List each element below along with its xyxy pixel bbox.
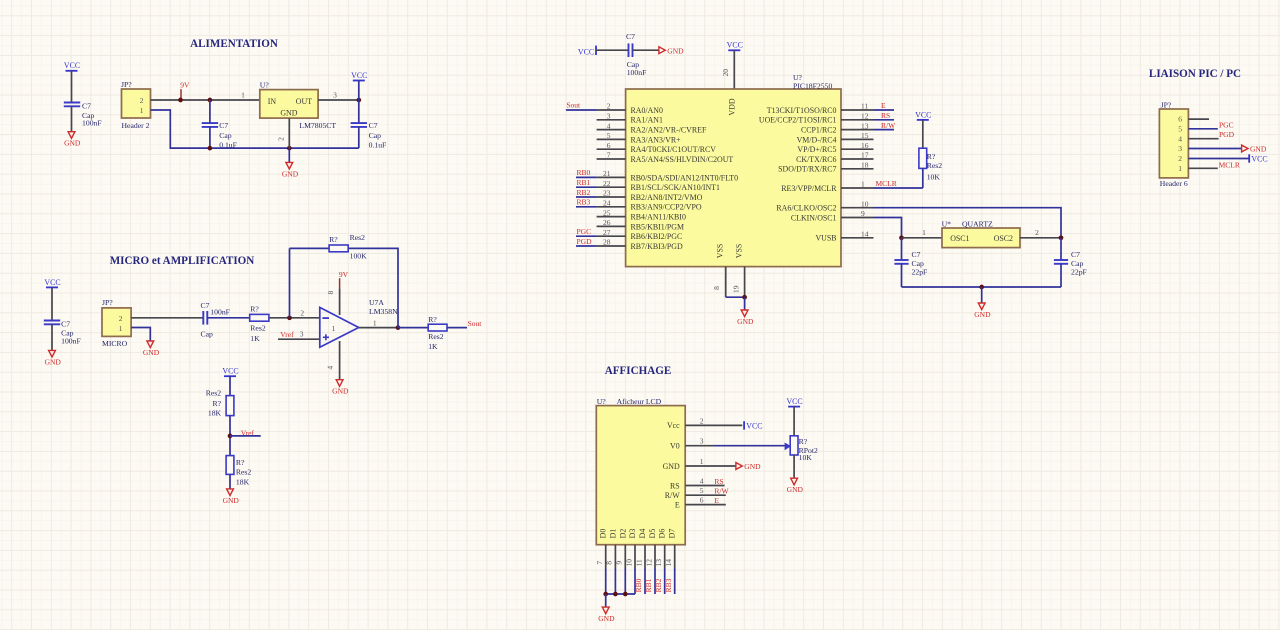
wire quartz pin 2 [1020, 228, 1061, 238]
power port VCC (PIC decoupling) [578, 46, 629, 57]
wire JP? pin2 to regulator [151, 99, 260, 101]
svg-text:PGC: PGC [1219, 121, 1234, 130]
Header 6 pin 1 wire MCLR [1188, 161, 1239, 170]
PIC VSS pin 8 [712, 267, 726, 298]
svg-text:GND: GND [744, 462, 761, 471]
wire Vref to op-amp non-inverting input [278, 330, 320, 340]
svg-text:C7: C7 [912, 250, 921, 259]
wire R 1K to Sout [447, 327, 467, 329]
junction op-amp output [396, 325, 401, 330]
svg-text:27: 27 [603, 228, 611, 237]
svg-text:CCP1/RC2: CCP1/RC2 [801, 126, 837, 135]
svg-text:6: 6 [700, 496, 704, 505]
svg-text:18: 18 [861, 161, 869, 170]
connector JP? Header 6 [1159, 100, 1188, 187]
wire OSC2 to quartz pin 2 [874, 208, 1062, 238]
net label Vref at op-amp [280, 330, 294, 339]
LCD pin 6 E [675, 496, 726, 510]
svg-text:RB3: RB3 [577, 198, 591, 207]
junction ground rail at input cap [208, 146, 213, 151]
svg-text:RA3/AN3/VR+: RA3/AN3/VR+ [631, 135, 682, 144]
svg-text:4: 4 [1178, 134, 1182, 143]
svg-text:C7: C7 [1071, 250, 1080, 259]
svg-text:RB2: RB2 [654, 578, 663, 592]
svg-text:R?: R? [428, 315, 437, 324]
svg-text:RB0: RB0 [577, 168, 591, 177]
wire VSS to ground [744, 297, 746, 310]
svg-text:4: 4 [700, 477, 704, 486]
regulator GND pin 2 [277, 118, 290, 148]
svg-text:MICRO: MICRO [102, 339, 128, 348]
svg-text:15: 15 [861, 131, 869, 140]
svg-text:AFFICHAGE: AFFICHAGE [605, 365, 672, 377]
svg-text:5: 5 [700, 486, 704, 495]
wire to quartz pin 1 [902, 228, 943, 238]
svg-text:20: 20 [721, 69, 730, 77]
svg-text:VCC: VCC [578, 47, 594, 56]
capacitor C7 22pF (right) [1054, 238, 1087, 287]
svg-text:GND: GND [223, 496, 240, 505]
LCD data pins 7-14 (downward) [595, 545, 675, 594]
Header 6 pin 6 stub [1188, 118, 1209, 120]
power port VCC (Header 6 pin 2) [1249, 154, 1267, 163]
svg-text:3: 3 [700, 437, 704, 446]
feedback wire top left [290, 247, 330, 249]
junction at output cap [356, 98, 361, 103]
svg-text:Res2: Res2 [206, 389, 222, 398]
wire cap to ground (micro decoupling) [51, 324, 53, 350]
svg-text:R?: R? [329, 235, 338, 244]
svg-text:V0: V0 [670, 442, 680, 451]
svg-text:2: 2 [1035, 228, 1039, 237]
svg-text:U?: U? [597, 397, 607, 406]
svg-text:PGC: PGC [577, 227, 592, 236]
svg-text:C7: C7 [201, 301, 210, 310]
svg-text:E: E [675, 500, 680, 509]
svg-text:18K: 18K [208, 409, 222, 418]
PIC pin 1 RE3/VPP/MCLR [781, 180, 873, 193]
svg-text:1: 1 [861, 180, 865, 189]
svg-text:GND: GND [45, 357, 62, 366]
svg-text:11: 11 [861, 102, 868, 111]
svg-text:C7: C7 [61, 319, 70, 328]
wire OSC1 to quartz pin 1 [874, 218, 902, 238]
net label MCLR wire (PIC pin 1) [874, 179, 923, 188]
svg-text:1: 1 [1178, 164, 1182, 173]
wire to quartz ground [981, 287, 983, 303]
ground (quartz) [974, 303, 991, 319]
svg-text:1: 1 [700, 457, 704, 466]
pin 3 wire regulator to VCC [318, 91, 359, 100]
svg-text:10: 10 [624, 559, 633, 567]
svg-text:VCC: VCC [64, 61, 80, 70]
svg-text:VCC: VCC [746, 422, 762, 431]
svg-text:PIC18F2550: PIC18F2550 [793, 82, 832, 91]
svg-text:E: E [714, 496, 719, 505]
LCD module U? Aficheur LCD [596, 397, 685, 545]
potentiometer R? RPot2 10K [785, 436, 818, 462]
svg-text:3: 3 [607, 112, 611, 121]
ground (op-amp) [332, 380, 349, 396]
svg-text:14: 14 [861, 230, 869, 239]
svg-text:10K: 10K [927, 172, 941, 181]
LCD pin 5 R/W [665, 486, 730, 500]
wire R 1K to op-amp inverting input [269, 309, 320, 318]
capacitor C7 100nF (micro decoupling) [44, 319, 81, 345]
svg-text:GND: GND [974, 310, 991, 319]
wire quartz caps ground rail [902, 286, 1062, 288]
svg-text:D0: D0 [599, 529, 608, 539]
svg-text:Cap: Cap [1071, 259, 1084, 268]
svg-text:1: 1 [922, 228, 926, 237]
svg-text:3: 3 [1178, 144, 1182, 153]
svg-text:GND: GND [280, 109, 297, 118]
net label Sout (op-amp output) [468, 319, 483, 328]
PIC pins RA0-RA5 (left) [597, 102, 734, 164]
svg-text:Vref: Vref [280, 330, 294, 339]
capacitor C7 0.1uF (input) [202, 100, 237, 150]
svg-text:VCC: VCC [222, 367, 238, 376]
svg-text:100K: 100K [350, 251, 368, 260]
svg-text:ALIMENTATION: ALIMENTATION [190, 38, 278, 50]
capacitor C7 0.1uF (output) [351, 100, 387, 150]
resistor R? Res2 1K (input) [250, 304, 269, 342]
svg-text:GND: GND [663, 462, 680, 471]
svg-text:U7A: U7A [369, 298, 384, 307]
resistor R? Res2 18K (upper divider) [206, 389, 234, 418]
LCD data pin names D0-D7 (vertical) [599, 529, 677, 539]
svg-text:LIAISON PIC / PC: LIAISON PIC / PC [1149, 68, 1241, 80]
capacitor C7 22pF (left) [894, 238, 927, 287]
op-amp power pin 8 to 9V [326, 288, 340, 315]
svg-text:2: 2 [119, 314, 123, 323]
junction at 9V [178, 98, 183, 103]
svg-text:2: 2 [1178, 154, 1182, 163]
svg-text:6: 6 [1178, 115, 1182, 124]
svg-text:LM358N: LM358N [369, 307, 398, 316]
svg-text:RA1/AN1: RA1/AN1 [631, 116, 663, 125]
capacitor C7 100nF (PIC decoupling) [626, 32, 646, 77]
svg-text:PGD: PGD [577, 237, 593, 246]
svg-text:Res2: Res2 [350, 233, 366, 242]
svg-text:LM7805CT: LM7805CT [299, 121, 336, 130]
connector JP? Header 2 [121, 80, 151, 130]
wire pull-up to MCLR [922, 168, 924, 188]
wire divider middle [229, 416, 231, 456]
svg-text:3: 3 [333, 91, 337, 100]
svg-text:RB1: RB1 [644, 578, 653, 592]
wire JP? pin1 to ground rail [151, 110, 359, 148]
title AFFICHAGE [605, 365, 672, 377]
svg-text:Header 6: Header 6 [1160, 179, 1188, 188]
svg-text:QUARTZ: QUARTZ [962, 219, 993, 228]
svg-text:8: 8 [326, 290, 335, 294]
svg-text:Header 2: Header 2 [122, 121, 150, 130]
capacitor C7 100nF coupling [201, 301, 230, 339]
ground (regulator) [282, 162, 299, 178]
svg-text:GND: GND [332, 387, 349, 396]
svg-text:RS: RS [670, 481, 680, 490]
op-amp power pin 4 to ground [326, 341, 340, 380]
Header 6 pin 5 wire PGC [1188, 121, 1233, 130]
svg-text:RA2/AN2/VR-/CVREF: RA2/AN2/VR-/CVREF [631, 126, 707, 135]
svg-text:RA4/T0CKI/C1OUT/RCV: RA4/T0CKI/C1OUT/RCV [631, 145, 717, 154]
PIC VDD pin 20 number [721, 69, 730, 77]
svg-text:9V: 9V [180, 81, 190, 90]
svg-text:RA0/AN0: RA0/AN0 [631, 106, 663, 115]
ground (MICRO pin1) [143, 341, 160, 357]
svg-text:VDD: VDD [728, 98, 737, 115]
svg-text:3: 3 [300, 330, 304, 339]
microcontroller U? PIC18F2550 body [626, 73, 841, 266]
svg-text:U?: U? [260, 81, 270, 90]
PIC pin 14 VUSB [815, 230, 873, 243]
svg-text:R/W: R/W [665, 491, 680, 500]
title LIAISON PIC / PC [1149, 68, 1241, 80]
wire MICRO pin1 to ground [131, 328, 150, 342]
svg-text:VM/D-/RC4: VM/D-/RC4 [797, 135, 837, 144]
svg-text:9V: 9V [339, 270, 349, 279]
regulator U? LM7805CT [260, 81, 337, 131]
svg-text:MCLR: MCLR [876, 179, 897, 188]
svg-text:VCC: VCC [44, 278, 60, 287]
svg-text:2: 2 [300, 309, 304, 318]
svg-text:Sout: Sout [468, 319, 483, 328]
power port VCC (potentiometer) [786, 397, 802, 436]
svg-text:C7: C7 [369, 121, 378, 130]
svg-text:10: 10 [861, 199, 869, 208]
svg-text:JP?: JP? [1161, 100, 1172, 109]
wire cap to ground (top-left) [71, 106, 73, 131]
svg-text:RB4/AN11/KBI0: RB4/AN11/KBI0 [631, 213, 686, 222]
LCD pin 2 Vcc [667, 416, 742, 430]
svg-text:R?: R? [213, 399, 222, 408]
svg-text:4: 4 [607, 121, 611, 130]
capacitor C7 100nF (top-left) [64, 101, 102, 127]
svg-text:24: 24 [603, 199, 611, 208]
svg-text:VSS: VSS [735, 244, 744, 258]
wire ground bus to GND [605, 594, 607, 607]
svg-text:25: 25 [603, 208, 611, 217]
svg-text:RB2/AN8/INT2/VMO: RB2/AN8/INT2/VMO [631, 193, 703, 202]
svg-text:D1: D1 [608, 529, 617, 539]
junction at input cap [208, 98, 213, 103]
op-amp U7A LM358N [320, 298, 398, 347]
PIC pins RC0-RC7 (right) with net labels [759, 101, 896, 174]
svg-text:1K: 1K [428, 342, 438, 351]
svg-text:R?: R? [236, 458, 245, 467]
junction ground rail at regulator [287, 146, 292, 151]
wire MICRO pin2 to coupling cap [131, 317, 203, 319]
power port VCC (divider) [222, 367, 238, 396]
svg-text:Res2: Res2 [428, 332, 444, 341]
wire cap to R 1K [207, 317, 249, 319]
resistor R? Res2 100K feedback [329, 233, 367, 260]
svg-text:C7: C7 [626, 32, 635, 41]
net labels RB0-RB3 (LCD data, vertical) [634, 578, 673, 592]
svg-text:GND: GND [667, 46, 684, 55]
svg-text:10K: 10K [799, 453, 813, 462]
svg-text:GND: GND [787, 485, 804, 494]
svg-text:CLKIN/OSC1: CLKIN/OSC1 [791, 213, 837, 222]
Header 6 pin 4 wire PGD [1188, 130, 1234, 139]
junction quartz ground [979, 285, 984, 290]
svg-text:RB6/KBI2/PGC: RB6/KBI2/PGC [631, 232, 683, 241]
svg-text:R/W: R/W [881, 121, 896, 130]
svg-text:OSC1: OSC1 [950, 234, 969, 243]
Header 6 pin 3 wire to ground [1188, 148, 1241, 150]
svg-text:8: 8 [605, 561, 614, 565]
resistor R? Res2 18K (lower divider) [226, 456, 251, 487]
ground (micro decoupling) [45, 350, 62, 366]
svg-text:1: 1 [332, 324, 336, 333]
ground (LCD, right-facing) [736, 462, 761, 471]
svg-text:RA5/AN4/SS/HLVDIN/C2OUT: RA5/AN4/SS/HLVDIN/C2OUT [631, 155, 734, 164]
svg-text:R/W: R/W [714, 486, 729, 495]
svg-text:2: 2 [700, 416, 704, 425]
svg-text:21: 21 [603, 169, 611, 178]
svg-text:5: 5 [1178, 124, 1182, 133]
PIC VDD pin name (vertical) [728, 98, 737, 115]
power port VCC (micro decoupling) [44, 278, 60, 321]
svg-text:R?: R? [927, 152, 936, 161]
svg-text:RA6/CLKO/OSC2: RA6/CLKO/OSC2 [776, 204, 836, 213]
svg-text:Res2: Res2 [236, 467, 252, 476]
svg-text:100nF: 100nF [82, 119, 102, 128]
svg-text:C7: C7 [82, 101, 91, 110]
ground (top-left) [64, 132, 81, 148]
svg-text:RS: RS [714, 477, 723, 486]
svg-text:22pF: 22pF [1071, 268, 1087, 277]
svg-text:1K: 1K [250, 334, 260, 343]
svg-text:GND: GND [737, 317, 754, 326]
svg-text:8: 8 [712, 286, 721, 290]
svg-text:100nF: 100nF [627, 68, 647, 77]
power port 9V (op-amp) [339, 270, 349, 289]
junction quartz pin 2 [1059, 235, 1064, 240]
svg-text:7: 7 [607, 151, 611, 160]
svg-text:RB1: RB1 [577, 178, 591, 187]
wire output to R 1K [398, 327, 428, 329]
svg-text:1: 1 [140, 106, 144, 115]
svg-text:9: 9 [615, 561, 624, 565]
svg-text:MCLR: MCLR [1219, 161, 1240, 170]
connector JP? MICRO [102, 298, 131, 348]
svg-text:11: 11 [634, 559, 643, 566]
Header 6 pin 2 wire to VCC [1188, 158, 1249, 160]
svg-text:Res2: Res2 [250, 324, 266, 333]
wire cap to ground (PIC decoupling) [633, 49, 659, 51]
svg-text:OUT: OUT [296, 97, 312, 106]
wire op-amp output [359, 318, 398, 327]
svg-text:E: E [881, 101, 886, 110]
wire VSS pins join [726, 296, 745, 298]
svg-text:GND: GND [143, 348, 160, 357]
PIC pins RB0-RB7 (left) with net labels [576, 168, 738, 251]
resistor R? Res2 10K pull-up [919, 148, 942, 181]
wire regulator ground to GND [288, 148, 290, 162]
svg-text:VCC: VCC [786, 397, 802, 406]
svg-text:RB7/KBI3/PGD: RB7/KBI3/PGD [631, 242, 683, 251]
power port 9V [180, 81, 190, 100]
svg-text:5: 5 [607, 131, 611, 140]
junction D0 ground [603, 592, 608, 597]
svg-text:2: 2 [140, 96, 144, 105]
wire V0 to potentiometer [714, 445, 785, 447]
svg-text:6: 6 [607, 141, 611, 150]
svg-text:RB2: RB2 [577, 188, 591, 197]
title ALIMENTATION [190, 38, 278, 50]
svg-text:22pF: 22pF [912, 268, 928, 277]
svg-text:D6: D6 [658, 529, 667, 539]
svg-text:VSS: VSS [716, 244, 725, 258]
svg-text:Cap: Cap [201, 329, 214, 338]
svg-text:26: 26 [603, 218, 611, 227]
svg-text:RB1/SCL/SCK/AN10/INT1: RB1/SCL/SCK/AN10/INT1 [631, 183, 720, 192]
svg-text:13: 13 [654, 559, 663, 567]
svg-text:1: 1 [241, 91, 245, 100]
PIC VSS pin names (vertical) [716, 244, 744, 258]
junction VSS [742, 295, 747, 300]
LCD pin 4 RS [670, 477, 724, 491]
feedback wire up from inverting input [289, 248, 291, 317]
pin 1 label of U? regulator [241, 91, 245, 100]
svg-text:RB0: RB0 [634, 578, 643, 592]
svg-text:Vcc: Vcc [667, 421, 680, 430]
wire D0-D3 ground bus [606, 593, 635, 595]
power port VCC (PIC VDD) [727, 41, 743, 89]
svg-text:CK/TX/RC6: CK/TX/RC6 [796, 155, 836, 164]
svg-text:23: 23 [603, 189, 611, 198]
svg-text:D5: D5 [648, 529, 657, 539]
svg-text:RB3: RB3 [664, 578, 673, 592]
svg-text:Cap: Cap [912, 259, 925, 268]
svg-text:100nF: 100nF [61, 337, 81, 346]
svg-text:4: 4 [326, 366, 335, 370]
svg-text:7: 7 [595, 561, 604, 565]
svg-text:17: 17 [861, 151, 869, 160]
junction Vref [228, 434, 233, 439]
power port VCC (LCD) [744, 421, 762, 430]
svg-text:12: 12 [861, 112, 869, 121]
svg-text:VP/D+/RC5: VP/D+/RC5 [797, 145, 836, 154]
svg-text:GND: GND [282, 169, 299, 178]
svg-text:13: 13 [861, 121, 869, 130]
ground (potentiometer) [787, 478, 804, 494]
crystal U? QUARTZ [942, 219, 1020, 247]
junction inverting input [287, 315, 292, 320]
junction D2 ground [623, 592, 628, 597]
svg-text:Cap: Cap [369, 131, 382, 140]
junction quartz pin 1 [899, 235, 904, 240]
svg-text:T13CKI/T1OSO/RC0: T13CKI/T1OSO/RC0 [767, 106, 837, 115]
svg-text:12: 12 [644, 559, 653, 567]
LCD pin 1 GND [663, 457, 736, 471]
svg-text:D7: D7 [668, 529, 677, 539]
svg-text:Sout: Sout [566, 101, 581, 110]
wire lower divider to ground [229, 474, 231, 489]
ground (LCD data) [598, 607, 615, 623]
svg-text:VUSB: VUSB [815, 234, 836, 243]
svg-text:100nF: 100nF [210, 308, 230, 317]
svg-text:C7: C7 [219, 121, 228, 130]
svg-text:28: 28 [603, 238, 611, 247]
resistor R? Res2 1K (output) [428, 315, 447, 351]
power port VCC (regulator output) [351, 71, 367, 100]
ground (Header 6 pin 3, right-facing) [1242, 145, 1267, 154]
svg-text:RB3/AN9/CCP2/VPO: RB3/AN9/CCP2/VPO [631, 203, 702, 212]
svg-text:D3: D3 [628, 529, 637, 539]
